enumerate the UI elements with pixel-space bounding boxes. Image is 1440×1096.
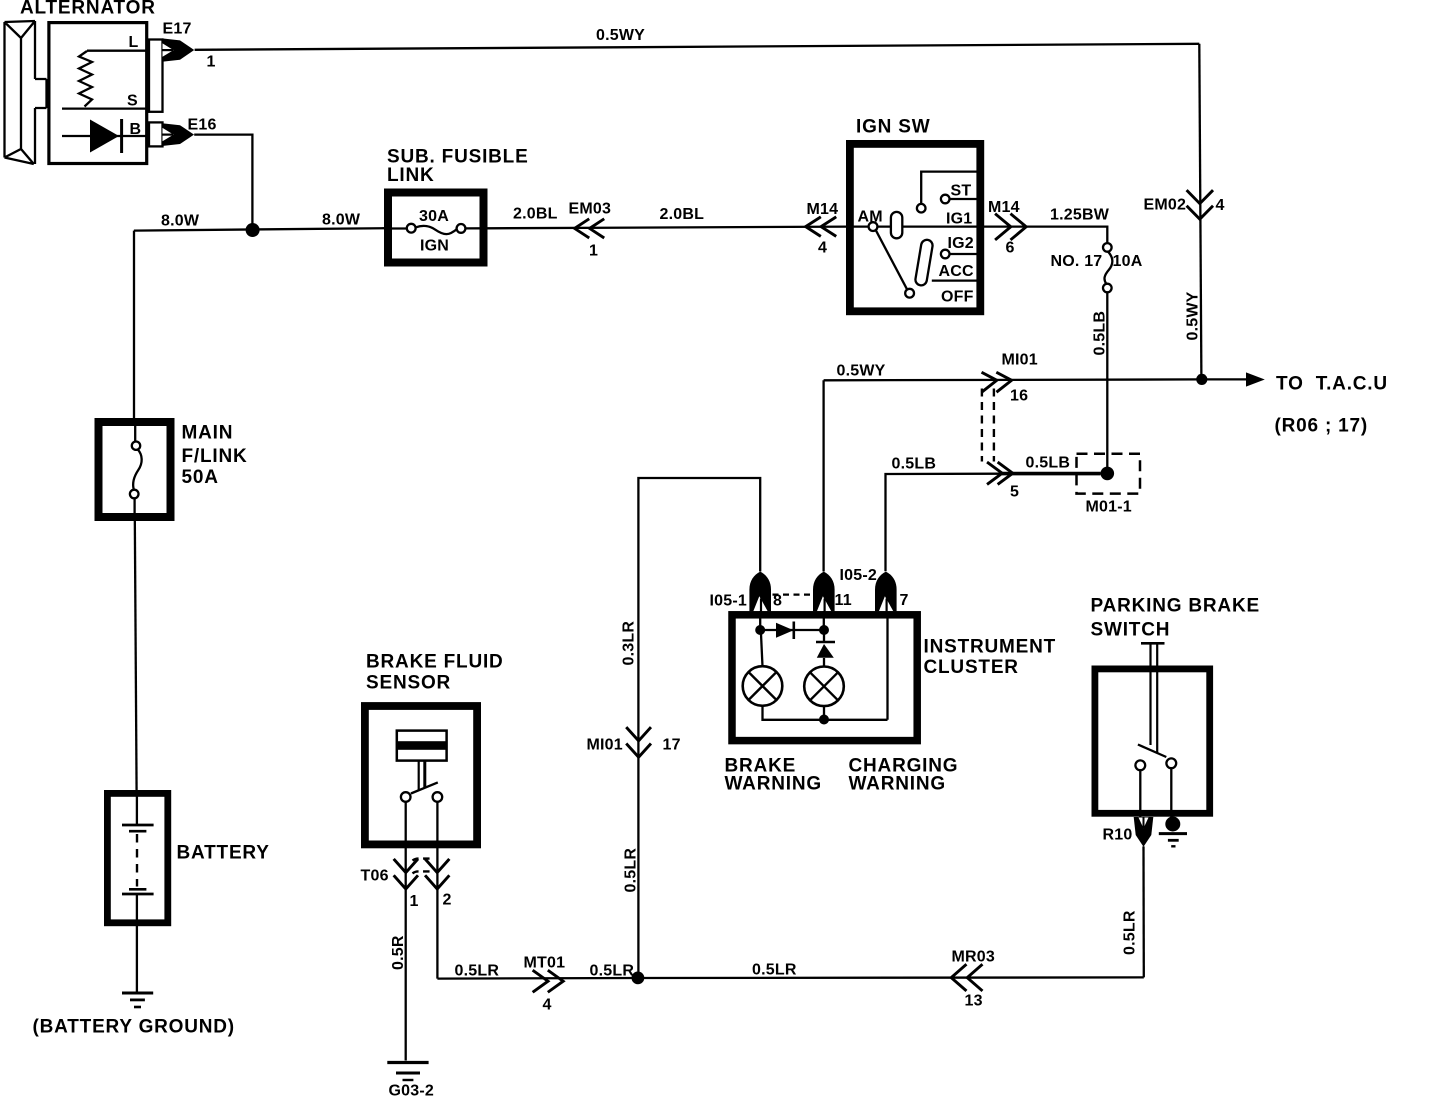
svg-text:17: 17 (663, 737, 681, 754)
connector M14 pin 6 (988, 199, 1026, 257)
svg-text:2.0BL: 2.0BL (660, 206, 705, 223)
sub fusible link box (388, 193, 484, 263)
svg-text:0.5LR: 0.5LR (623, 848, 640, 893)
wire 1.25BW (978, 207, 1110, 244)
svg-text:E16: E16 (188, 117, 217, 134)
svg-text:INSTRUMENT: INSTRUMENT (924, 637, 1057, 658)
svg-text:30A: 30A (419, 208, 449, 225)
wire 0.5LR bottom run (437, 962, 1143, 980)
alternator box (49, 23, 147, 164)
wire 2.0BL (488, 206, 850, 229)
svg-text:T06: T06 (361, 868, 389, 885)
cluster bottom wire (763, 618, 888, 725)
ground G03-2 (387, 1063, 434, 1096)
svg-text:50A: 50A (182, 467, 219, 488)
svg-text:MI01: MI01 (1002, 352, 1038, 369)
wire 8.0W down to main fusible link (133, 231, 135, 419)
svg-text:SENSOR: SENSOR (366, 673, 451, 694)
svg-text:0.5WY: 0.5WY (596, 27, 645, 44)
connector EM03 pin 1 (569, 201, 612, 260)
svg-text:0.5LR: 0.5LR (752, 962, 797, 979)
svg-text:NO. 17: NO. 17 (1051, 253, 1103, 270)
svg-text:2: 2 (443, 892, 452, 909)
ignition switch ACC contact (915, 239, 977, 286)
connector MI01 pin 17 (587, 728, 681, 757)
svg-text:SWITCH: SWITCH (1091, 620, 1171, 641)
alternator label (20, 0, 156, 19)
terminal L label (129, 34, 139, 51)
cluster pin 7 connector (840, 567, 909, 611)
svg-text:IG2: IG2 (948, 235, 974, 252)
wire battery to ground (136, 920, 138, 992)
svg-text:B: B (130, 121, 142, 138)
svg-text:1.25BW: 1.25BW (1050, 207, 1110, 224)
svg-text:10A: 10A (1113, 253, 1143, 270)
svg-text:WARNING: WARNING (725, 774, 822, 795)
svg-text:TO T.A.C.U: TO T.A.C.U (1276, 374, 1388, 395)
svg-text:F/LINK: F/LINK (182, 446, 248, 467)
svg-text:1: 1 (207, 54, 216, 71)
svg-text:ACC: ACC (939, 263, 975, 280)
ignition switch IG1 label (946, 211, 972, 228)
svg-text:8.0W: 8.0W (161, 213, 200, 230)
ignition switch IG2 contact (941, 235, 977, 258)
svg-text:5: 5 (1010, 484, 1019, 501)
svg-text:M14: M14 (988, 199, 1020, 216)
cluster wire pin8 node (755, 611, 765, 635)
svg-text:IGN: IGN (420, 238, 449, 255)
wire 0.5WY top (195, 27, 1200, 50)
connector M14 pin 4 (806, 201, 839, 257)
svg-text:BRAKE FLUID: BRAKE FLUID (366, 652, 504, 673)
svg-text:LINK: LINK (387, 165, 435, 186)
battery cells (122, 797, 154, 920)
ignition switch ST contact (917, 172, 977, 213)
connector R10 (1103, 817, 1154, 847)
svg-text:I05-1: I05-1 (710, 593, 747, 610)
dashed link pin8-pin11 (773, 593, 815, 595)
instrument cluster label (924, 637, 1057, 679)
connector MI01 dashed bracket (982, 389, 994, 462)
svg-text:CLUSTER: CLUSTER (924, 657, 1019, 678)
svg-text:0.5LB: 0.5LB (1092, 311, 1109, 356)
svg-text:0.5R: 0.5R (390, 935, 407, 970)
junction node 8.0W (246, 223, 260, 237)
battery ground label (33, 1017, 235, 1038)
wire 0.5LB from fuse (1092, 292, 1109, 467)
main fusible link fuse 50A (130, 422, 142, 517)
terminal S line (62, 93, 147, 110)
svg-text:AM: AM (858, 209, 883, 226)
svg-text:4: 4 (1216, 197, 1225, 214)
wire and arrow TO TACU (1202, 372, 1388, 436)
alternator diode (62, 119, 147, 153)
svg-text:M01-1: M01-1 (1086, 499, 1132, 516)
svg-text:ST: ST (951, 183, 972, 200)
svg-text:4: 4 (543, 997, 552, 1014)
connector E17 (149, 21, 216, 112)
wire 0.5WY to cluster pin 11 (822, 380, 824, 571)
svg-text:S: S (127, 93, 138, 110)
wire sensor pin2 down (436, 889, 438, 979)
connector T06 pin 2 (426, 860, 452, 909)
ignition switch OFF label (941, 289, 974, 306)
svg-text:MAIN: MAIN (182, 423, 234, 444)
connector T06 pin 1 (361, 860, 419, 910)
svg-text:WARNING: WARNING (849, 774, 946, 795)
parking brake switch box (1095, 669, 1210, 813)
battery box (107, 793, 167, 922)
connector MI01 pin 5 (988, 463, 1019, 501)
ignition switch AM-IG1 line (849, 225, 977, 227)
svg-text:0.5LB: 0.5LB (892, 456, 937, 473)
charging warning label (849, 756, 959, 795)
ignition switch rotor contact (891, 212, 902, 238)
battery ground symbol (122, 993, 153, 1007)
fuse 30A IGN (384, 208, 488, 255)
junction node 0.5LR (632, 972, 645, 985)
connector MI01 pin 16 (983, 352, 1038, 405)
svg-text:0.5LR: 0.5LR (455, 963, 500, 980)
svg-text:MI01: MI01 (587, 737, 623, 754)
svg-text:EM03: EM03 (569, 201, 612, 218)
svg-text:I05-2: I05-2 (840, 567, 877, 584)
parking brake switch label (1091, 596, 1260, 641)
svg-text:1: 1 (589, 243, 598, 260)
main fusible link box (99, 422, 171, 517)
svg-text:MT01: MT01 (524, 955, 566, 972)
parking brake lever (1141, 643, 1165, 753)
brake fluid sensor switch (401, 782, 442, 890)
cluster diode D1 (760, 622, 824, 640)
wire 8.0W (134, 212, 385, 231)
svg-text:0.3LR: 0.3LR (621, 621, 638, 666)
connector M01-1 (1077, 454, 1141, 516)
ignition switch label (856, 117, 930, 138)
svg-text:0.5LR: 0.5LR (1122, 910, 1139, 955)
wire 0.5R to ground (390, 889, 407, 1061)
ignition switch AM contact (858, 209, 883, 232)
wire 0.3LR from cluster pin 8 (621, 478, 761, 978)
svg-text:2.0BL: 2.0BL (513, 206, 558, 223)
svg-text:L: L (129, 34, 139, 51)
instrument cluster box (732, 615, 917, 741)
svg-text:11: 11 (835, 592, 852, 609)
cluster diode D2 charging (816, 630, 835, 667)
wire 0.5WY to TACU (824, 363, 1202, 381)
svg-text:7: 7 (900, 592, 909, 609)
brake fluid sensor box (365, 706, 477, 844)
svg-text:EM02: EM02 (1144, 197, 1187, 214)
connector MR03 pin 13 (951, 949, 995, 1010)
cluster pin 8 connector (710, 572, 783, 612)
svg-text:4: 4 (818, 240, 827, 257)
ignition switch arm (876, 230, 914, 297)
brake fluid sensor label (366, 652, 504, 694)
svg-text:0.5WY: 0.5WY (837, 363, 886, 380)
parking brake switch contacts (1135, 745, 1176, 818)
svg-text:(BATTERY GROUND): (BATTERY GROUND) (33, 1017, 235, 1038)
fuse NO.17 10A (1051, 243, 1143, 292)
svg-text:IG1: IG1 (946, 211, 972, 228)
svg-text:1: 1 (410, 893, 419, 910)
wire 0.5WY right vertical (1185, 44, 1202, 380)
svg-text:E17: E17 (163, 21, 192, 38)
svg-text:BATTERY: BATTERY (177, 843, 270, 864)
svg-text:R10: R10 (1103, 827, 1133, 844)
svg-text:MR03: MR03 (952, 949, 995, 966)
connector MT01 pin 4 (524, 955, 566, 1014)
svg-text:16: 16 (1010, 388, 1028, 405)
svg-text:0.5LB: 0.5LB (1026, 455, 1071, 472)
charging warning lamp (804, 667, 844, 707)
svg-text:(R06 ; 17): (R06 ; 17) (1275, 416, 1369, 437)
wire 0.5LR parking brake (1122, 846, 1144, 977)
wire 0.5LB to M01-1 (886, 455, 1101, 572)
parking brake internal ground (1159, 817, 1187, 847)
battery label (177, 843, 270, 864)
wire 0.5LR label vertical (623, 848, 640, 893)
svg-text:PARKING BRAKE: PARKING BRAKE (1091, 596, 1260, 617)
svg-text:ALTERNATOR: ALTERNATOR (20, 0, 156, 19)
connector E16 (149, 117, 217, 147)
cluster pin 11 connector (813, 572, 852, 612)
alternator rotor coil (79, 51, 147, 107)
brake fluid sensor float (397, 731, 447, 790)
alternator pulley (5, 21, 47, 164)
connector T06 dashed arc (413, 859, 432, 874)
ignition switch box (850, 144, 980, 311)
svg-text:IGN SW: IGN SW (856, 117, 930, 138)
node to TACU (1196, 374, 1207, 385)
svg-text:6: 6 (1006, 240, 1015, 257)
svg-text:OFF: OFF (941, 289, 974, 306)
svg-text:13: 13 (965, 993, 983, 1010)
sub fusible link label (387, 147, 529, 187)
brake warning label (725, 756, 822, 795)
svg-text:M14: M14 (807, 201, 839, 218)
svg-text:G03-2: G03-2 (389, 1083, 434, 1096)
connector EM02 pin 4 (1144, 191, 1225, 219)
wire main f-link to battery (135, 517, 137, 793)
main fusible link label (182, 423, 248, 489)
svg-text:0.5WY: 0.5WY (1185, 291, 1202, 340)
svg-text:0.5LR: 0.5LR (590, 963, 635, 980)
brake warning lamp (743, 634, 783, 706)
cluster wire pin11 node (819, 611, 829, 635)
wire from E16 to junction (194, 135, 252, 230)
svg-text:8.0W: 8.0W (322, 212, 361, 229)
